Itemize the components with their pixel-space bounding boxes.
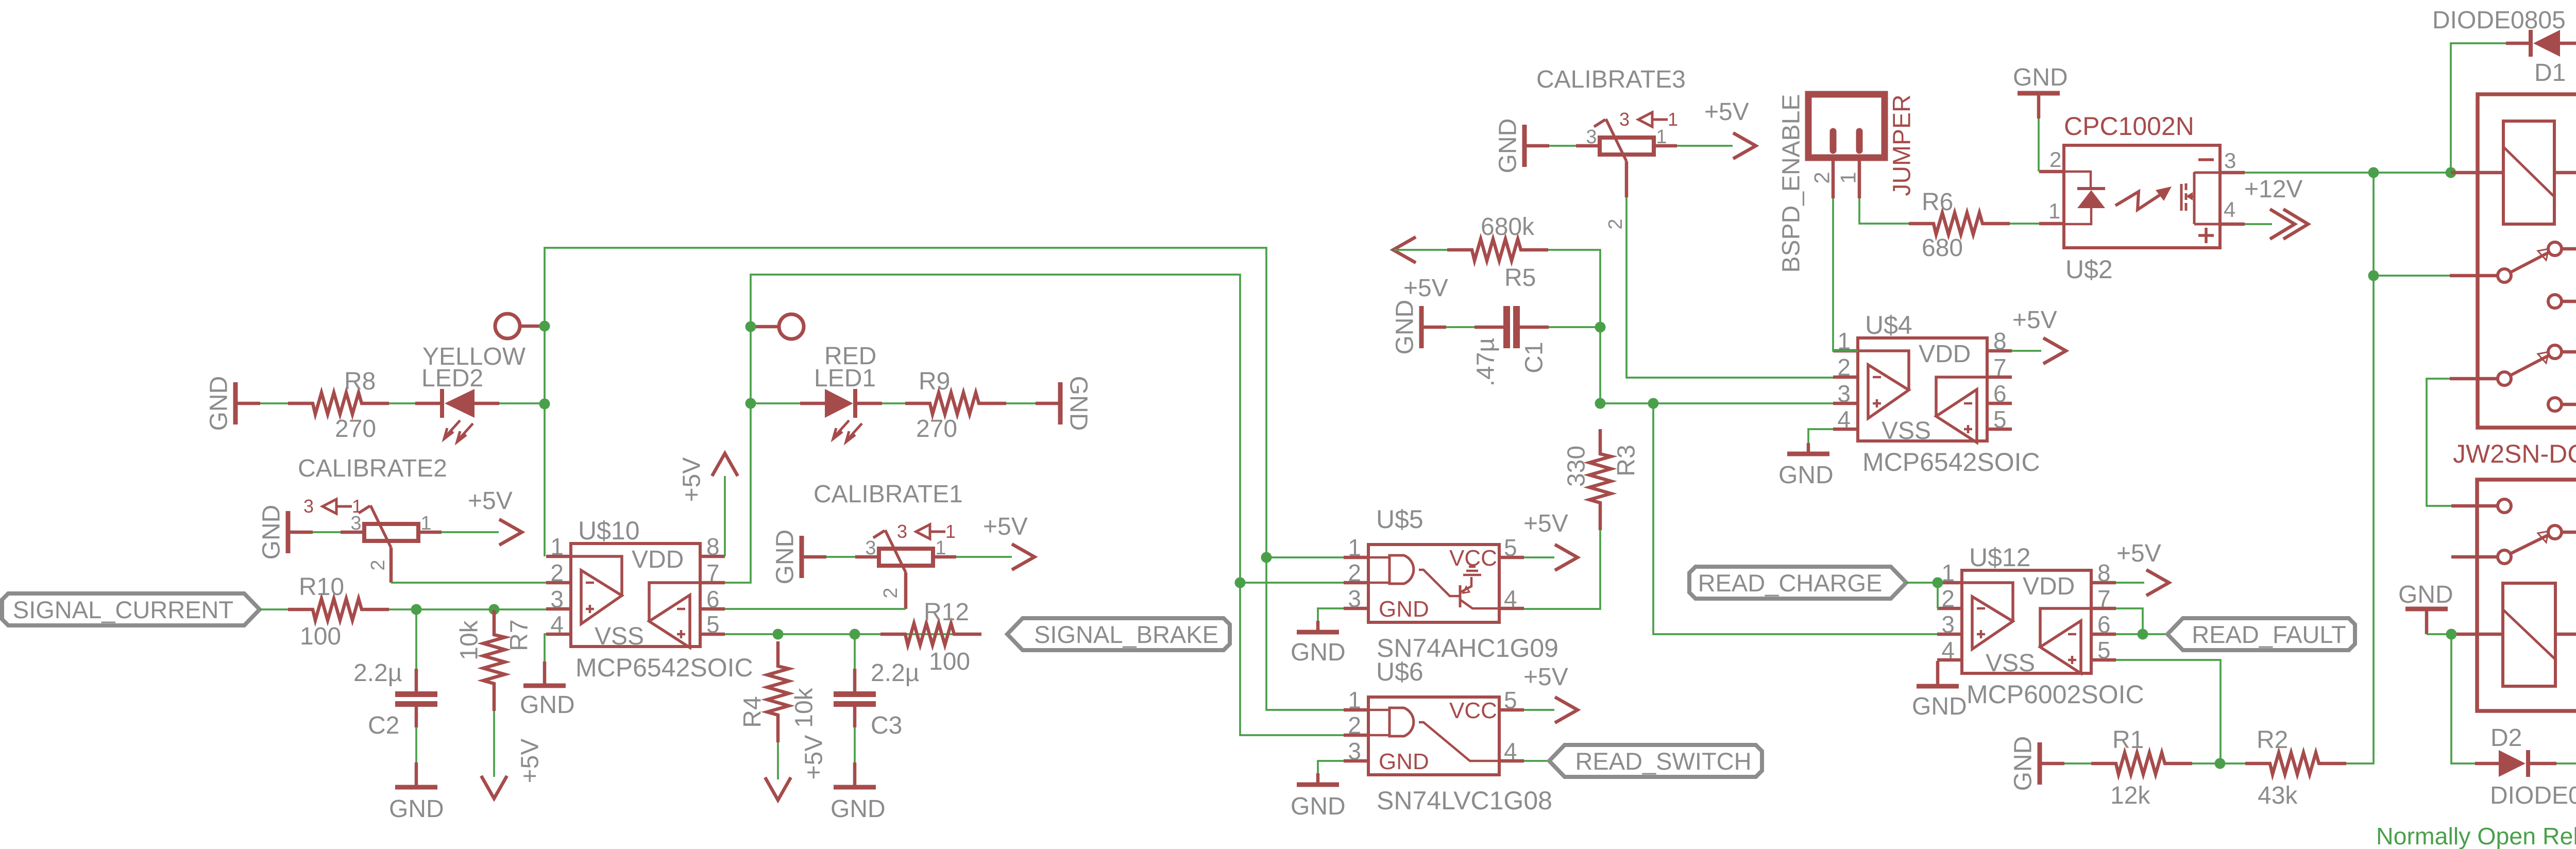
wire (1548, 250, 1600, 327)
wire (545, 634, 546, 661)
svg-text:6: 6 (1993, 380, 2007, 407)
wire (1520, 326, 1549, 329)
wire (853, 762, 857, 785)
port READ_FAULT (2167, 618, 2355, 650)
svg-text:GND: GND (772, 530, 799, 585)
wire (415, 609, 417, 669)
wire D2 loop left (2451, 634, 2475, 763)
svg-text:+5V: +5V (468, 487, 513, 515)
svg-text:8: 8 (706, 533, 720, 560)
svg-text:R6: R6 (1922, 189, 1953, 216)
power +5V arrow (1012, 544, 1035, 570)
U$2 internal LED (2064, 172, 2105, 224)
power +5V arrow (2146, 570, 2169, 596)
capacitor C1 .47u (1503, 306, 1520, 348)
svg-text:5: 5 (2097, 637, 2111, 664)
svg-text:4: 4 (1504, 738, 1517, 765)
svg-text:+5V: +5V (983, 513, 1028, 540)
svg-text:R3: R3 (1613, 445, 1640, 476)
wire R8 gnd stub (235, 402, 260, 405)
svg-text:2.2µ: 2.2µ (871, 659, 919, 687)
svg-text:2: 2 (367, 559, 389, 570)
U$2 opto arrow (2115, 186, 2172, 210)
svg-text:6: 6 (2097, 611, 2111, 638)
wire (2192, 762, 2246, 765)
svg-text:READ_CHARGE: READ_CHARGE (1698, 569, 1883, 597)
svg-text:5: 5 (1504, 687, 1517, 714)
wire (1808, 429, 1833, 443)
ground GND at C2 (395, 785, 437, 790)
relay K1 coil pin left (2451, 171, 2503, 175)
wire (2116, 633, 2167, 635)
wire (1677, 145, 1733, 147)
ground GND at CALIBRATE3 (1522, 125, 1527, 167)
wire (2116, 582, 2144, 584)
power +5V arrow (1555, 697, 1578, 723)
svg-text:270: 270 (916, 415, 957, 443)
svg-text:GND: GND (831, 795, 886, 823)
wire (543, 661, 547, 684)
svg-text:10k: 10k (456, 620, 483, 660)
svg-text:GND: GND (389, 795, 444, 823)
wire (882, 402, 905, 404)
svg-text:VCC: VCC (1449, 698, 1497, 723)
wire (725, 633, 981, 635)
svg-text:U$6: U$6 (1376, 657, 1423, 686)
wire (854, 727, 856, 762)
wire (415, 727, 417, 762)
svg-text:+5V: +5V (1403, 275, 1448, 302)
svg-text:C3: C3 (871, 712, 902, 739)
potentiometer CALIBRATE2 (341, 505, 442, 583)
pot marker 3-1 (303, 496, 362, 517)
relay K2 coil pin right (2555, 633, 2576, 636)
svg-text:VSS: VSS (1986, 650, 2035, 677)
svg-text:U$10: U$10 (578, 516, 640, 545)
svg-text:2: 2 (880, 587, 902, 598)
wire R2 to relay net (2346, 174, 2374, 763)
relay K1 switch arm 1 (2510, 249, 2549, 273)
junction (745, 321, 756, 332)
port READ_CHARGE (1689, 567, 1906, 599)
svg-text:+5V: +5V (1704, 98, 1749, 126)
ground GND at U2 pin2 (2018, 91, 2060, 96)
svg-text:4: 4 (1504, 585, 1517, 612)
ground GND at CALIBRATE2 (286, 511, 291, 553)
ground GND at CALIBRATE1 (800, 536, 804, 578)
svg-text:6: 6 (706, 586, 720, 613)
relay K2 switch arm (2510, 531, 2549, 554)
svg-text:DIODE0805: DIODE0805 (2490, 782, 2576, 809)
svg-text:R8: R8 (344, 368, 376, 395)
AND gate U$6 SN74LVC1G08 (1344, 657, 1552, 815)
resistor R3 (1589, 429, 1611, 530)
wire (499, 402, 545, 404)
svg-text:+5V: +5V (2116, 540, 2161, 567)
svg-text:VDD: VDD (1919, 341, 1971, 368)
ground GND at U6 pin3 (1297, 783, 1339, 787)
wire (415, 669, 418, 692)
op-amp U$12 MCP6002SOIC (1937, 543, 2144, 709)
relay K2 outer box (2477, 480, 2576, 711)
svg-text:2: 2 (1941, 585, 1955, 612)
svg-text:3: 3 (303, 496, 314, 517)
svg-text:3: 3 (897, 521, 907, 542)
svg-text:3: 3 (865, 537, 876, 559)
svg-text:7: 7 (706, 559, 720, 586)
power +5V arrow (499, 519, 522, 545)
wire (1446, 326, 1478, 328)
wire (826, 556, 855, 558)
wire (2427, 633, 2451, 635)
wire (2064, 762, 2092, 765)
svg-text:3: 3 (550, 586, 564, 613)
svg-text:680: 680 (1922, 234, 1963, 262)
svg-text:GND: GND (1392, 300, 1419, 355)
wire (1394, 249, 1449, 251)
wire K1 pole2 to K2 (2427, 379, 2451, 506)
svg-text:GND: GND (1379, 597, 1429, 622)
relay K1 contact circles (2498, 242, 2562, 411)
wire (1549, 145, 1576, 147)
svg-text:1: 1 (1668, 109, 1678, 130)
port SIGNAL_BRAKE (1007, 618, 1230, 650)
wire (956, 556, 1012, 558)
wire (751, 402, 800, 404)
svg-text:3: 3 (1837, 380, 1851, 407)
svg-text:2.2µ: 2.2µ (353, 659, 402, 687)
wire (415, 762, 418, 785)
U$2 internal MOSFET (2181, 160, 2220, 243)
svg-text:GND: GND (1912, 693, 1967, 720)
resistor R1 (2091, 753, 2192, 774)
svg-text:GND: GND (258, 505, 285, 560)
relay K2 coil pin left (2451, 633, 2503, 636)
svg-text:GND: GND (1291, 793, 1346, 820)
junction (773, 629, 784, 640)
port READ_SWITCH (1549, 745, 1762, 777)
svg-text:4: 4 (1941, 637, 1955, 664)
svg-text:3: 3 (1348, 585, 1361, 612)
svg-text:CPC1002N: CPC1002N (2064, 112, 2194, 141)
svg-text:CALIBRATE1: CALIBRATE1 (814, 481, 963, 508)
wire (2012, 350, 2041, 352)
svg-text:GND: GND (206, 376, 233, 431)
relay K1 contact pins (2450, 249, 2576, 404)
junction (2446, 167, 2456, 178)
svg-text:MCP6542SOIC: MCP6542SOIC (1862, 448, 2040, 477)
svg-text:R4: R4 (739, 696, 767, 727)
svg-text:8: 8 (2097, 559, 2111, 586)
svg-text:1: 1 (1348, 687, 1361, 714)
svg-text:MCP6542SOIC: MCP6542SOIC (575, 653, 753, 682)
junction (2446, 629, 2457, 640)
svg-text:+5V: +5V (801, 735, 828, 780)
resistor R10 (288, 599, 389, 620)
svg-text:+5V: +5V (1523, 664, 1568, 691)
optocoupler U$2 CPC1002N box (2064, 145, 2220, 248)
wire (2116, 608, 2143, 636)
ground GND at U5 pin3 (1297, 630, 1339, 635)
ground GND at U12 pin4 (1917, 684, 1959, 689)
svg-text:GND: GND (1778, 462, 1834, 489)
wire (1006, 402, 1036, 404)
svg-text:5: 5 (706, 611, 720, 638)
wire pin1-pin2 tie (1937, 583, 1938, 608)
wire net OUTA to U5 pin1 (1266, 556, 1344, 558)
junction (1595, 322, 1606, 333)
resistor R5 (1447, 239, 1548, 261)
svg-text:READ_FAULT: READ_FAULT (2192, 621, 2346, 648)
svg-text:R1: R1 (2112, 726, 2144, 754)
svg-text:MCP6002SOIC: MCP6002SOIC (1967, 680, 2144, 709)
wire (442, 531, 499, 533)
svg-text:5: 5 (1993, 406, 2007, 433)
wire (724, 476, 726, 556)
svg-text:LED1: LED1 (814, 365, 876, 392)
svg-text:+5V: +5V (679, 457, 706, 502)
svg-text:SIGNAL_CURRENT: SIGNAL_CURRENT (13, 596, 233, 623)
svg-text:GND: GND (1065, 376, 1092, 431)
svg-text:CALIBRATE3: CALIBRATE3 (1536, 66, 1686, 93)
svg-text:1: 1 (1656, 126, 1667, 148)
svg-text:330: 330 (1563, 446, 1590, 487)
wire jumper pin1 to R6 (1859, 198, 1910, 224)
wire pot pin2 to U10 pin6 (725, 608, 906, 610)
wire pot pin2 to U4 pin2 (1626, 197, 1833, 378)
resistor R8 (288, 393, 389, 414)
node test point on OUTA (495, 314, 520, 338)
svg-text:680k: 680k (1481, 213, 1535, 241)
svg-text:SIGNAL_BRAKE: SIGNAL_BRAKE (1034, 621, 1218, 648)
svg-text:3: 3 (1348, 738, 1361, 765)
svg-text:5: 5 (1504, 534, 1517, 561)
junction (850, 629, 860, 640)
wire (2245, 223, 2272, 225)
resistor R12 (880, 623, 981, 645)
svg-text:VDD: VDD (632, 546, 684, 573)
svg-text:CALIBRATE2: CALIBRATE2 (298, 455, 447, 482)
wire D2 loop right (2555, 634, 2576, 763)
resistor R2 (2245, 753, 2346, 774)
pot marker 3-1 (1619, 109, 1678, 130)
wire (260, 402, 288, 404)
ground GND at K2 coil (2405, 607, 2448, 612)
power +5V arrow up (712, 453, 738, 476)
U$2 pin stubs (2039, 172, 2245, 224)
svg-text:1: 1 (352, 496, 362, 517)
svg-text:43k: 43k (2258, 782, 2298, 809)
power +5V arrow (1733, 133, 1756, 159)
ground GND at U10 pin4 (523, 684, 566, 688)
svg-text:1: 1 (1836, 172, 1860, 183)
svg-text:1: 1 (1348, 534, 1361, 561)
wire (415, 705, 418, 727)
ground GND at R9 (1058, 382, 1063, 424)
svg-text:GND: GND (520, 691, 575, 719)
junction (539, 321, 550, 332)
relay K2 contact circles (2498, 499, 2562, 564)
resistor R9 (905, 393, 1006, 414)
svg-text:GND: GND (2010, 736, 2037, 791)
svg-text:R9: R9 (919, 368, 950, 395)
power +5V arrow left (1393, 237, 1416, 263)
ground GND at U4 pin4 (1787, 452, 1829, 456)
svg-text:GND: GND (1495, 118, 1522, 174)
wire cal1 gnd stub (802, 555, 826, 559)
wire R9 gnd stub (1036, 402, 1060, 405)
wire (2374, 275, 2450, 277)
svg-text:10k: 10k (791, 687, 818, 727)
wire (2038, 118, 2040, 172)
svg-text:GND: GND (1379, 749, 1429, 774)
power +5V arrow (1555, 545, 1578, 570)
power +5V arrow down (765, 777, 791, 800)
wire (1807, 443, 1810, 452)
wire stub to circle (751, 325, 779, 329)
relay K1 coil (2503, 121, 2554, 224)
port SIGNAL_CURRENT (2, 593, 260, 625)
relay K2 coil (2503, 583, 2555, 686)
svg-text:U$2: U$2 (2065, 255, 2113, 284)
wire (1906, 582, 1937, 584)
wire cal2 gnd stub (288, 531, 313, 534)
svg-text:+5V: +5V (1523, 510, 1568, 537)
junction (411, 604, 422, 615)
junction (745, 398, 756, 409)
svg-text:DIODE0805: DIODE0805 (2432, 7, 2566, 34)
svg-text:D1: D1 (2534, 59, 2566, 87)
wire (854, 634, 856, 669)
svg-text:R10: R10 (299, 573, 344, 601)
ground GND at C3 (834, 785, 876, 790)
wire net OUTB (725, 275, 1344, 735)
svg-text:3: 3 (1586, 126, 1597, 148)
svg-text:VSS: VSS (595, 623, 644, 650)
power +12V double arrow (2270, 209, 2308, 239)
svg-text:JW2SN-DC12V: JW2SN-DC12V (2453, 439, 2576, 468)
svg-text:1: 1 (420, 513, 431, 534)
wire r1 gnd stub (2040, 762, 2064, 766)
svg-text:JUMPER: JUMPER (1889, 94, 1916, 196)
svg-text:U$4: U$4 (1865, 311, 1912, 339)
svg-text:U$12: U$12 (1969, 543, 2031, 572)
potentiometer CALIBRATE3 (1576, 119, 1677, 197)
wire (2116, 660, 2221, 763)
relay K1 switch arm 2 (2510, 352, 2549, 376)
wire (1318, 761, 1344, 773)
junction (1261, 552, 1272, 563)
LED LED1 (red) (800, 389, 882, 442)
pot marker 3-1 (897, 521, 956, 542)
svg-text:12k: 12k (2110, 782, 2150, 809)
svg-text:BSPD_ENABLE: BSPD_ENABLE (1778, 94, 1805, 273)
junction (1595, 398, 1606, 409)
junction (2368, 167, 2379, 178)
wire (1600, 402, 1833, 404)
wire (2037, 93, 2041, 118)
relay K2 top contact pin (2451, 504, 2498, 508)
wire (2010, 223, 2039, 225)
wire (1524, 556, 1554, 558)
svg-text:2: 2 (1837, 354, 1851, 381)
svg-text:1: 1 (550, 533, 564, 560)
wire U4pin3 to U12pin3 (1653, 403, 1937, 634)
wire stub to circle (520, 325, 545, 328)
potentiometer CALIBRATE1 (855, 530, 956, 609)
junction (539, 399, 550, 410)
svg-text:2: 2 (1810, 172, 1834, 183)
relay K2 pole pin (2451, 555, 2498, 559)
svg-text:R5: R5 (1504, 264, 1536, 292)
wire (1318, 608, 1344, 621)
wire (777, 742, 779, 779)
wire (1316, 773, 1320, 783)
wire net OUTB to U5 pin2 (1240, 582, 1344, 584)
svg-text:1: 1 (1941, 559, 1955, 586)
junction (2138, 629, 2148, 640)
relay K1 coil pin right (2554, 171, 2576, 175)
wire (853, 669, 857, 692)
svg-text:R2: R2 (2257, 726, 2288, 754)
svg-text:GND: GND (2013, 64, 2068, 91)
junction (2215, 758, 2226, 769)
svg-text:3: 3 (1941, 611, 1955, 638)
wire c1 gnd stub (1421, 326, 1446, 329)
wire (1524, 709, 1554, 711)
capacitor C3 2.2u (834, 691, 876, 707)
power +5V arrow (2043, 338, 2066, 364)
resistor R4 (767, 641, 789, 742)
svg-text:SN74LVC1G08: SN74LVC1G08 (1377, 786, 1552, 815)
relay K1 outer box (2478, 94, 2576, 428)
junction (489, 604, 500, 615)
svg-text:3: 3 (2224, 148, 2236, 173)
svg-text:R12: R12 (924, 599, 969, 626)
wire (260, 608, 288, 610)
svg-text:Normally Open Relay -> FSAE EV: Normally Open Relay -> FSAE EV5.1.6 (2376, 823, 2576, 849)
svg-text:VSS: VSS (1882, 417, 1931, 445)
svg-text:2: 2 (1348, 559, 1361, 586)
svg-text:GND: GND (1291, 639, 1346, 666)
svg-text:2: 2 (2049, 147, 2061, 172)
svg-text:R7: R7 (506, 619, 533, 651)
svg-text:8: 8 (1993, 328, 2007, 354)
ground GND at R1 (2038, 742, 2042, 785)
svg-text:+12V: +12V (2244, 176, 2302, 203)
svg-text:LED2: LED2 (421, 365, 483, 392)
resistor R6 (1909, 213, 2010, 234)
svg-text:VDD: VDD (2023, 573, 2075, 600)
node test point on OUTB (779, 314, 804, 339)
junction (1933, 578, 1943, 588)
svg-text:1: 1 (945, 521, 956, 542)
svg-text:C1: C1 (1521, 342, 1548, 373)
wire (313, 531, 341, 533)
ground GND at C1 (1419, 306, 1424, 348)
junction (2368, 270, 2379, 281)
svg-text:270: 270 (335, 415, 376, 443)
AND gate U$5 SN74AHC1G09 (1344, 505, 1558, 663)
diode D2 (2475, 750, 2556, 777)
svg-text:3: 3 (1619, 109, 1630, 130)
svg-text:4: 4 (2224, 197, 2235, 222)
wire pot pin2 to U10 pin2 (391, 582, 546, 584)
svg-text:READ_SWITCH: READ_SWITCH (1575, 748, 1751, 775)
wire R3 to U5 out (1524, 530, 1600, 609)
svg-text:+5V: +5V (2012, 307, 2057, 334)
resistor R7 (483, 610, 505, 711)
